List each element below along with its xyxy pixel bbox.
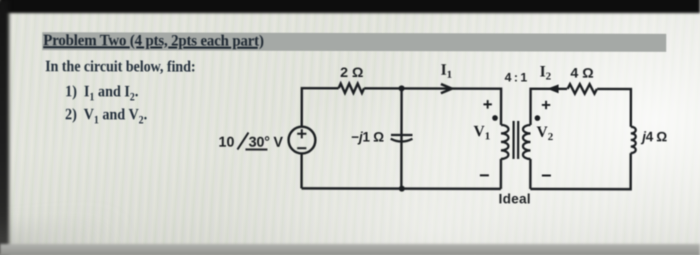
photo bottom-left shadow — [0, 214, 128, 255]
wire: inductor bottom to bottom-right corner and left along bottom — [530, 153, 630, 189]
title text — [43, 32, 264, 51]
svg-text:Ideal: Ideal — [499, 191, 531, 206]
capacitor C top plate — [391, 134, 412, 136]
transformer secondary polarity dot — [535, 115, 541, 121]
inductor L j4ohm — [631, 127, 636, 153]
wire: secondary winding bottom to bottom rail — [529, 159, 531, 189]
svg-text:V2: V2 — [536, 124, 553, 143]
wire: capacitor branch — [400, 88, 403, 188]
wire: bottom rail of left mesh — [302, 187, 501, 190]
resistor R 2ohm zigzag — [339, 84, 364, 93]
svg-text:I2: I2 — [540, 63, 552, 82]
svg-text:30° V: 30° V — [249, 135, 284, 151]
resistor R 4ohm zigzag — [568, 84, 597, 93]
svg-text:4 Ω: 4 Ω — [570, 66, 593, 82]
primary minus sign — [480, 174, 489, 176]
primary plus sign — [483, 100, 491, 108]
transformer secondary winding — [523, 125, 531, 159]
secondary plus sign — [542, 101, 550, 109]
wire: primary winding bottom down to bottom rail — [500, 159, 502, 189]
node A junction dot top — [399, 85, 405, 91]
photo bottom gray strip — [0, 244, 700, 255]
angle notation underline — [245, 149, 267, 151]
source minus sign — [297, 147, 306, 149]
wire: top-left from source top up and right to resistor — [302, 88, 339, 127]
wire: 4ohm resistor to top-right corner down to inductor — [597, 89, 631, 127]
svg-text:−j1 Ω: −j1 Ω — [351, 130, 384, 145]
svg-text:I1: I1 — [441, 62, 453, 81]
secondary minus sign — [542, 175, 551, 177]
node B junction dot bottom — [399, 186, 405, 192]
svg-text:2 Ω: 2 Ω — [340, 65, 363, 81]
voltage source VS circle — [289, 127, 316, 154]
capacitor C bottom curved plate — [391, 139, 413, 142]
photo dark left edge — [0, 0, 9, 255]
wire: secondary top corner to 4ohm resistor — [531, 89, 568, 125]
source plus sign — [297, 129, 306, 138]
transformer primary polarity dot — [492, 115, 498, 121]
transformer core lines — [514, 121, 519, 159]
angle notation slash — [237, 133, 248, 150]
wire: resistor to node A — [364, 87, 401, 89]
svg-text:V1: V1 — [473, 123, 490, 142]
body line — [45, 58, 195, 76]
svg-text:10: 10 — [218, 135, 234, 151]
current I2 arrowhead — [547, 84, 559, 93]
wire: source bottom to bottom rail — [300, 154, 302, 189]
transformer primary winding — [501, 125, 509, 159]
list item 2 — [65, 106, 147, 126]
current I1 arrowhead chevron — [441, 84, 452, 93]
list item 1 — [65, 83, 138, 103]
svg-text:4 : 1: 4 : 1 — [505, 70, 528, 84]
wire: node A to transformer primary corner, down to winding — [402, 88, 502, 124]
photo dark top edge — [0, 0, 700, 13]
title highlight band — [42, 32, 666, 51]
svg-text:j4 Ω: j4 Ω — [640, 129, 667, 144]
